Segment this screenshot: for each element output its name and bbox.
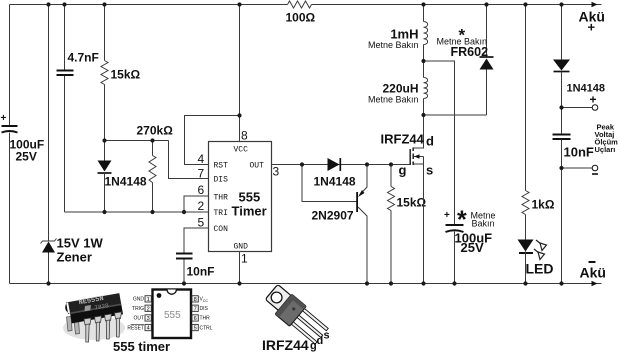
svg-text:RST: RST xyxy=(214,162,229,171)
svg-text:1kΩ: 1kΩ xyxy=(532,198,555,212)
svg-text:10nF: 10nF xyxy=(187,265,215,279)
svg-text:CTRL: CTRL xyxy=(200,325,213,331)
svg-text:25V: 25V xyxy=(16,150,37,164)
svg-text:g: g xyxy=(399,163,407,178)
svg-text:220uH: 220uH xyxy=(382,82,418,96)
svg-text:Metne Bakın: Metne Bakın xyxy=(368,40,419,50)
svg-text:3: 3 xyxy=(147,316,150,322)
svg-text:3: 3 xyxy=(273,165,280,179)
svg-text:OUT: OUT xyxy=(133,316,144,322)
svg-text:d: d xyxy=(317,335,324,347)
svg-text:+: + xyxy=(444,210,450,221)
svg-text:Uçları: Uçları xyxy=(595,145,616,154)
svg-text:15kΩ: 15kΩ xyxy=(397,196,427,210)
svg-text:LED: LED xyxy=(526,261,554,277)
svg-text:THR: THR xyxy=(214,194,229,203)
svg-text:25V: 25V xyxy=(461,240,484,255)
svg-text:1N4148: 1N4148 xyxy=(314,175,356,189)
svg-text:6: 6 xyxy=(198,183,205,197)
svg-text:GND: GND xyxy=(234,243,249,252)
svg-text:Akü: Akü xyxy=(580,265,606,281)
svg-text:10nF: 10nF xyxy=(564,145,594,160)
svg-text:GND: GND xyxy=(133,297,145,303)
svg-text:2: 2 xyxy=(198,199,205,213)
svg-text:5: 5 xyxy=(198,216,205,230)
svg-text:15V 1W: 15V 1W xyxy=(57,236,104,251)
svg-text:1: 1 xyxy=(241,252,248,266)
svg-text:2N2907: 2N2907 xyxy=(312,209,354,223)
svg-text:8: 8 xyxy=(241,129,248,143)
svg-text:1: 1 xyxy=(147,297,150,303)
svg-text:+: + xyxy=(1,113,7,124)
svg-text:CC: CC xyxy=(203,299,209,303)
svg-text:RESET: RESET xyxy=(127,325,144,331)
svg-text:s: s xyxy=(426,163,433,178)
svg-text:s: s xyxy=(324,330,330,342)
svg-text:555 timer: 555 timer xyxy=(113,339,170,354)
svg-text:1N4148: 1N4148 xyxy=(567,83,606,95)
svg-text:4: 4 xyxy=(198,152,205,166)
svg-text:TRIG: TRIG xyxy=(132,306,144,312)
svg-text:2: 2 xyxy=(147,306,150,312)
svg-text:15kΩ: 15kΩ xyxy=(111,68,141,82)
svg-text:555: 555 xyxy=(164,310,181,321)
svg-text:270kΩ: 270kΩ xyxy=(137,124,174,138)
svg-text:THR: THR xyxy=(200,316,211,322)
svg-text:7: 7 xyxy=(194,306,197,312)
svg-text:8: 8 xyxy=(194,297,197,303)
svg-text:7: 7 xyxy=(198,167,205,181)
svg-text:TRI: TRI xyxy=(214,209,228,218)
svg-text:4.7nF: 4.7nF xyxy=(68,51,99,65)
svg-text:d: d xyxy=(426,134,434,149)
svg-text:+: + xyxy=(588,20,596,35)
svg-text:OUT: OUT xyxy=(250,162,265,171)
svg-text:Timer: Timer xyxy=(232,204,267,219)
svg-text:CON: CON xyxy=(214,225,229,234)
svg-text:IRFZ44: IRFZ44 xyxy=(262,337,309,353)
svg-text:4: 4 xyxy=(147,326,150,332)
svg-text:VCC: VCC xyxy=(234,146,249,155)
svg-text:Bakın: Bakın xyxy=(472,219,495,229)
svg-text:+: + xyxy=(590,93,597,107)
svg-text:DIS: DIS xyxy=(200,306,209,312)
svg-text:DIS: DIS xyxy=(214,176,229,185)
svg-text:IRFZ44: IRFZ44 xyxy=(381,132,425,147)
svg-text:100Ω: 100Ω xyxy=(286,11,316,25)
svg-text:555: 555 xyxy=(239,190,261,205)
svg-text:6: 6 xyxy=(194,316,197,322)
svg-text:Metne Bakın: Metne Bakın xyxy=(368,95,419,105)
svg-text:5: 5 xyxy=(194,326,197,332)
svg-text:FR602: FR602 xyxy=(451,45,489,59)
svg-text:1N4148: 1N4148 xyxy=(105,175,147,189)
svg-text:Zener: Zener xyxy=(57,250,92,265)
